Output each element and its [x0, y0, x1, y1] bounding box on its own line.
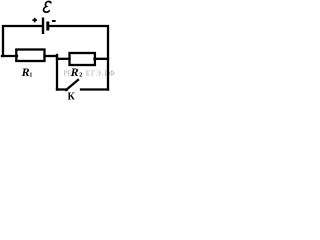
- svg-text:1: 1: [29, 73, 32, 79]
- svg-text:R: R: [70, 65, 79, 79]
- svg-text:R: R: [21, 65, 30, 79]
- svg-text:ЕГЭ.РФ: ЕГЭ.РФ: [86, 70, 116, 78]
- svg-text:К: К: [68, 92, 76, 102]
- svg-text:2: 2: [79, 73, 82, 79]
